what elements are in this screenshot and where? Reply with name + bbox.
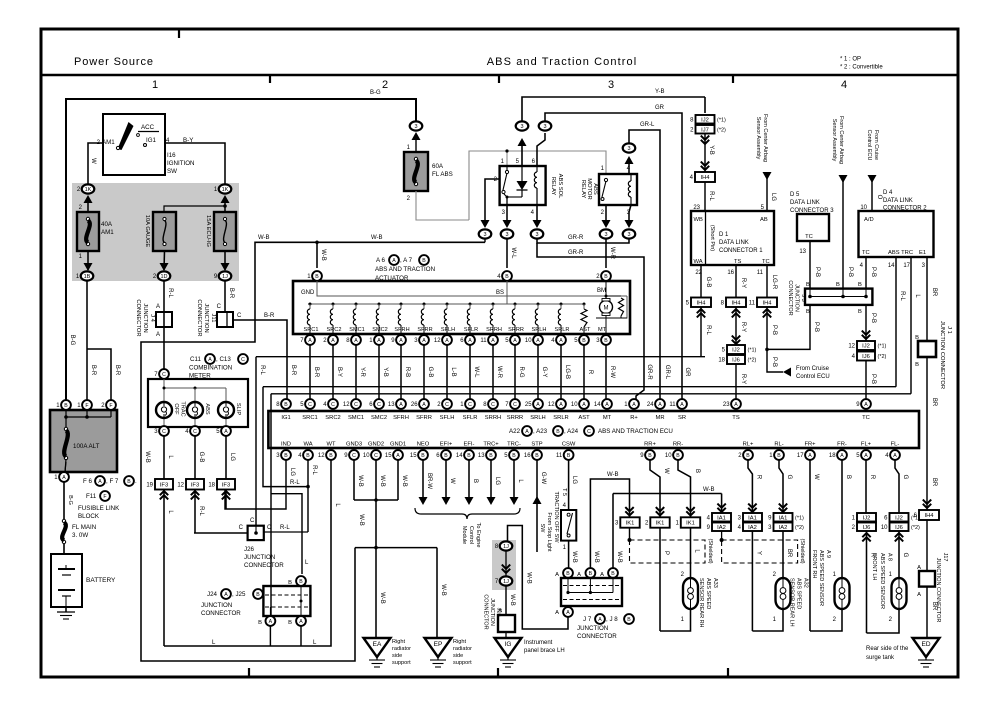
svg-text:A: A — [864, 402, 868, 408]
svg-text:IG1: IG1 — [281, 415, 290, 421]
MOTOR relay internals — [604, 178, 607, 181]
battery cell symbols — [58, 568, 75, 570]
svg-text:A: A — [605, 402, 609, 408]
svg-text:IK1: IK1 — [656, 521, 665, 527]
wire L to engine control module — [513, 460, 515, 497]
svg-text:A: A — [566, 610, 570, 616]
ECU pin RL+ — [743, 450, 753, 460]
wire W-B J7 riser — [590, 479, 629, 568]
svg-text:B: B — [472, 479, 478, 483]
svg-text:GR: GR — [684, 368, 690, 378]
ECU pin SR — [677, 399, 687, 409]
svg-text:TC: TC — [805, 234, 813, 240]
svg-text:C: C — [468, 402, 472, 408]
svg-text:CONNECTOR 1: CONNECTOR 1 — [719, 248, 763, 254]
ECU pin IND — [281, 450, 291, 460]
svg-text:.: . — [135, 478, 137, 485]
actuator solenoid SFRH — [400, 303, 403, 306]
svg-text:10: 10 — [525, 338, 532, 344]
ALT pin 1 B — [61, 400, 71, 410]
svg-text:SRC1: SRC1 — [302, 415, 317, 421]
actuator solenoid SFRR — [423, 303, 426, 306]
wire R RL+ — [748, 460, 752, 513]
svg-text:WA: WA — [694, 259, 703, 265]
svg-text:IJ2: IJ2 — [732, 348, 740, 354]
svg-text:P-B: P-B — [870, 267, 876, 277]
wire GR-L relay pin 4 — [628, 162, 630, 174]
svg-text:, A24: , A24 — [564, 428, 579, 435]
svg-text:3. 0W: 3. 0W — [72, 532, 88, 539]
connector 1K left — [82, 184, 95, 193]
connector 3 (B-G) — [410, 121, 423, 130]
svg-text:13: 13 — [388, 402, 395, 408]
svg-text:A: A — [808, 453, 812, 459]
fuse 40A AM1 — [77, 212, 99, 251]
svg-text:ED: ED — [921, 641, 930, 648]
wire W FR+ — [809, 460, 811, 631]
wire B-R J11 to ECU IG1 — [233, 320, 287, 399]
svg-text:CONNECTOR: CONNECTOR — [135, 299, 141, 336]
svg-text:SFLH: SFLH — [440, 415, 455, 421]
svg-text:G-B: G-B — [427, 367, 433, 378]
chevrons into IJ2 (TS) — [732, 336, 740, 344]
svg-text:FL ABS: FL ABS — [432, 171, 453, 178]
svg-text:STP: STP — [531, 442, 542, 448]
wire L meter to IF3 — [163, 436, 165, 479]
actuator pin SRC2 — [328, 335, 338, 345]
svg-text:LG: LG — [571, 476, 577, 484]
wire relay pin 3 — [629, 205, 631, 221]
svg-text:TRAC: TRAC — [180, 401, 186, 416]
svg-text:P-B: P-B — [870, 374, 876, 384]
actuator solenoid SMC1 — [355, 303, 358, 306]
wire W-B GND3 — [353, 460, 355, 500]
svg-text:18: 18 — [829, 453, 836, 459]
svg-text:IJ6: IJ6 — [895, 525, 903, 531]
svg-text:C: C — [162, 429, 166, 435]
svg-text:IJ2: IJ2 — [863, 515, 871, 521]
svg-text:100A ALT: 100A ALT — [73, 443, 100, 450]
wire R-L 12IF3 to J26 — [194, 490, 196, 534]
svg-text:16: 16 — [524, 453, 531, 459]
ECU pin SRLR — [556, 399, 566, 409]
junction connector J11 box — [217, 312, 233, 327]
svg-text:BR: BR — [931, 602, 937, 611]
svg-text:TRC-: TRC- — [507, 442, 521, 448]
svg-text:CONNECTOR: CONNECTOR — [244, 562, 284, 569]
ALT pin 1 A — [59, 472, 69, 482]
connector IJ2 (TS) — [727, 345, 745, 354]
svg-text:EFI+: EFI+ — [440, 442, 453, 448]
svg-text:A: A — [893, 453, 897, 459]
wire B RR- — [678, 460, 691, 517]
wire Y-B relay pin 5 — [521, 140, 523, 166]
svg-text:P: P — [663, 551, 669, 555]
svg-text:A: A — [598, 617, 602, 623]
wire P-B down — [766, 307, 768, 349]
wire G-B — [423, 345, 425, 399]
ECU pin CSW — [564, 450, 574, 460]
svg-text:W-B: W-B — [320, 249, 326, 261]
alternator 100A ALT box — [50, 410, 117, 472]
svg-text:R-L: R-L — [167, 288, 173, 298]
svg-text:A: A — [208, 357, 212, 363]
svg-text:Control ECU: Control ECU — [796, 374, 830, 380]
meter lamp TRACOFF — [163, 402, 165, 426]
svg-text:A: A — [156, 332, 160, 338]
svg-text:FL-: FL- — [891, 442, 900, 448]
wire from 60A fuse to relays (gray) — [416, 191, 469, 220]
actuator pin SRRR — [510, 335, 520, 345]
svg-text:SFRH: SFRH — [394, 327, 409, 333]
svg-text:AM1: AM1 — [101, 229, 114, 236]
svg-text:ABS SPEED SENSOR: ABS SPEED SENSOR — [818, 550, 824, 606]
wire W-B GND1 — [397, 460, 399, 500]
connector IJ6 (TS) — [727, 355, 745, 364]
wire W from AM1 — [88, 143, 103, 184]
wire R-W — [605, 345, 607, 399]
svg-text:SENSOR REAR LH: SENSOR REAR LH — [789, 578, 795, 627]
J7 pin B 2 — [586, 568, 596, 578]
wire W-B horizontal — [613, 493, 722, 495]
connector IJ2 (FL-) — [890, 513, 909, 522]
svg-text:BR-W: BR-W — [426, 473, 432, 489]
svg-text:ABS AND TRACTION ECU: ABS AND TRACTION ECU — [598, 428, 673, 435]
svg-text:IA2: IA2 — [748, 525, 757, 531]
wire R-L J26 to 12IF3 — [194, 532, 248, 534]
svg-text:W-B: W-B — [379, 592, 385, 604]
actuator solenoid SMC2 — [378, 303, 381, 306]
svg-text:BLOCK: BLOCK — [78, 513, 100, 520]
svg-text:D 1: D 1 — [719, 232, 729, 238]
svg-text:G-W: G-W — [540, 472, 546, 485]
svg-text:W-B: W-B — [358, 514, 364, 526]
actuator pin 4 B BS — [502, 271, 512, 281]
connector IA1 (G) — [774, 513, 793, 522]
svg-text:Control ECU: Control ECU — [866, 130, 872, 161]
wire G-Y — [537, 345, 539, 399]
svg-text:(Shielded): (Shielded) — [707, 538, 713, 563]
svg-text:A: A — [525, 429, 529, 435]
svg-text:12: 12 — [343, 402, 350, 408]
svg-text:1K: 1K — [222, 187, 229, 193]
svg-text:(*1): (*1) — [878, 344, 887, 350]
connector IF3 (R-L) — [186, 479, 204, 490]
svg-text:Right: Right — [453, 639, 467, 645]
svg-text:MT: MT — [603, 415, 612, 421]
svg-text:RL+: RL+ — [743, 442, 754, 448]
wire W-L — [469, 345, 471, 399]
svg-text:SW: SW — [167, 168, 177, 175]
arrow From Cruise Control ECU — [783, 368, 791, 377]
svg-text:W-R: W-R — [496, 366, 502, 379]
svg-text:SRRR: SRRR — [508, 327, 524, 333]
svg-text:B: B — [806, 309, 810, 315]
wire R-L horizontal (IH4-5 to J26) — [256, 356, 705, 358]
svg-text:B-R: B-R — [228, 288, 234, 299]
actuator pin SRRH — [488, 335, 498, 345]
svg-text:11: 11 — [749, 300, 756, 306]
svg-text:3: 3 — [604, 232, 607, 238]
ECU pin MT — [602, 399, 612, 409]
svg-text:CSW: CSW — [562, 442, 576, 448]
junction P-B — [765, 348, 769, 352]
gray 1J connector background — [492, 540, 516, 590]
svg-text:TC: TC — [862, 415, 870, 421]
svg-text:(*1): (*1) — [795, 515, 804, 521]
svg-text:R+: R+ — [630, 415, 638, 421]
svg-text:14: 14 — [594, 402, 601, 408]
wire R-Y — [735, 265, 737, 297]
svg-text:R-L: R-L — [259, 365, 265, 375]
svg-text:WA: WA — [303, 442, 312, 448]
wire BR to ED — [926, 587, 928, 638]
ECU pin SRLH — [533, 399, 543, 409]
connector IJ2 (TC) — [857, 341, 875, 350]
svg-text:11: 11 — [757, 270, 764, 276]
connector IA2 (G) — [774, 523, 793, 532]
svg-text:C: C — [445, 402, 449, 408]
svg-text:B-G: B-G — [69, 335, 75, 346]
wire LG to engine control module — [490, 460, 492, 497]
svg-text:C: C — [217, 304, 222, 310]
svg-text:R-L: R-L — [899, 291, 905, 301]
svg-text:IG: IG — [505, 641, 512, 648]
svg-text:JUNCTION: JUNCTION — [244, 554, 275, 561]
wire W-B to EP — [355, 547, 437, 549]
chevrons into IK1 3 — [625, 507, 633, 515]
svg-text:(*2): (*2) — [717, 127, 726, 133]
svg-text:CONNECTOR: CONNECTOR — [483, 594, 489, 629]
ALT pin 2 F — [106, 400, 116, 410]
svg-text:LG-B: LG-B — [564, 365, 570, 379]
svg-text:Rear side of the: Rear side of the — [866, 646, 909, 652]
svg-text:3: 3 — [483, 232, 486, 238]
svg-text:P-B: P-B — [771, 357, 777, 367]
connector IH4 (R-Y) — [726, 298, 746, 308]
chevrons into IK1 2 — [656, 507, 664, 515]
svg-text:J 1: J 1 — [946, 326, 952, 334]
actuator pin SMC2 — [374, 335, 384, 345]
svg-text:25: 25 — [525, 402, 532, 408]
wire G RL- — [779, 460, 783, 513]
shield box A33 — [630, 540, 706, 563]
wire R-L IH4-5 to J26 top — [255, 357, 257, 526]
svg-text:3: 3 — [535, 232, 538, 238]
svg-text:G: G — [902, 553, 908, 558]
svg-text:(*2): (*2) — [911, 525, 920, 531]
wire LG 18IF3 down — [225, 490, 227, 510]
wire W-L to actuator BS — [506, 239, 508, 268]
svg-text:1J: 1J — [222, 274, 228, 280]
connector IA2 (R) — [743, 523, 762, 532]
svg-text:C: C — [241, 357, 245, 363]
svg-text:1J: 1J — [503, 579, 509, 585]
svg-text:AST: AST — [580, 327, 591, 333]
svg-text:ABS: ABS — [204, 403, 210, 414]
svg-text:G-B: G-B — [705, 277, 711, 288]
svg-text:W-B: W-B — [144, 451, 150, 463]
wire L D4-17 to J24 — [270, 394, 272, 617]
svg-text:LG: LG — [494, 477, 500, 485]
svg-text:R-L: R-L — [311, 465, 317, 475]
wire P-B J3 to IJ2 TC — [865, 305, 867, 341]
svg-text:13: 13 — [799, 249, 806, 255]
svg-text:RELAY: RELAY — [550, 177, 556, 196]
chevrons into IA pair 2 — [748, 504, 756, 512]
ignition switch I16 box — [103, 114, 165, 175]
svg-text:AM1: AM1 — [102, 139, 115, 146]
wire B-R — [309, 345, 311, 399]
svg-text:A: A — [632, 402, 636, 408]
svg-text:P-B: P-B — [870, 313, 876, 323]
connector 3 (GR-R) — [531, 229, 544, 238]
svg-text:(*1): (*1) — [748, 348, 757, 354]
svg-text:W-B: W-B — [571, 551, 577, 563]
connector 1K right — [219, 184, 232, 193]
connector IH4 (Y-B/R-L) — [695, 172, 715, 182]
ECU pin GND3 — [349, 450, 359, 460]
connector IF3 (L) — [155, 479, 173, 490]
svg-text:A: A — [377, 338, 381, 344]
svg-text:W-B: W-B — [593, 551, 599, 563]
svg-text:F: F — [85, 403, 88, 409]
wire G-W STP — [536, 460, 538, 552]
meter lamp SLIP — [225, 402, 227, 426]
chevrons below IH4 G-B — [697, 309, 705, 317]
svg-text:BM: BM — [597, 288, 606, 294]
connector IH4 (G-B) — [691, 298, 711, 308]
svg-text:LG: LG — [229, 453, 235, 461]
actuator pin SFRH — [396, 335, 406, 345]
svg-text:TRACTION OFF SW: TRACTION OFF SW — [553, 491, 559, 543]
wire GR relay pin 6 — [537, 133, 545, 166]
svg-text:SRRH: SRRH — [486, 327, 502, 333]
svg-text:P-B: P-B — [813, 322, 819, 332]
svg-text:P-B: P-B — [814, 267, 820, 277]
ECU pin EFI+ — [441, 450, 451, 460]
svg-text:From Center Airbag: From Center Airbag — [838, 116, 844, 164]
svg-text:B: B — [256, 592, 260, 598]
svg-text:B-G: B-G — [67, 495, 73, 505]
svg-text:26: 26 — [411, 402, 418, 408]
svg-text:SR: SR — [678, 415, 686, 421]
svg-text:A: A — [582, 402, 586, 408]
connector IJ6 (TC) — [857, 352, 875, 361]
arrow from center airbag (LG) — [763, 172, 772, 180]
relay ABS SOL RELAY box — [500, 166, 546, 205]
svg-text:R: R — [587, 370, 593, 375]
svg-text:1B: 1B — [84, 274, 91, 280]
svg-text:IA2: IA2 — [717, 525, 726, 531]
svg-text:F: F — [103, 494, 106, 500]
wire R-L WA to J26 — [307, 460, 309, 532]
junction W-B — [315, 241, 319, 245]
wire R-L 1D to meter — [163, 281, 165, 369]
J7 pin B — [563, 568, 573, 578]
svg-text:(*2): (*2) — [878, 354, 887, 360]
connector 3 (GR-R link) — [623, 229, 636, 238]
svg-text:18: 18 — [208, 482, 215, 488]
svg-text:BR: BR — [931, 398, 937, 407]
ECU pin SFLR — [465, 399, 475, 409]
tick bottom border — [727, 668, 729, 677]
wire BR-W to engine control module — [422, 460, 424, 497]
wire R-L horizontal (D4-14) — [263, 386, 896, 388]
svg-text:Power Source: Power Source — [74, 56, 154, 68]
svg-text:ABS SPEED SENSOR: ABS SPEED SENSOR — [879, 553, 885, 609]
svg-text:B: B — [64, 403, 68, 409]
svg-text:FL MAIN: FL MAIN — [72, 524, 96, 531]
connector 3 (Y-B) — [516, 121, 529, 130]
svg-text:D 5: D 5 — [790, 192, 800, 198]
svg-text:A22: A22 — [509, 428, 521, 435]
svg-text:panel brace LH: panel brace LH — [524, 648, 565, 654]
svg-text:RR-: RR- — [673, 442, 683, 448]
svg-text:From Stop Light: From Stop Light — [546, 512, 552, 552]
svg-text:W-B: W-B — [509, 594, 515, 606]
ECU pin R+ — [629, 399, 639, 409]
svg-text:J26: J26 — [244, 546, 255, 553]
svg-text:C: C — [377, 402, 381, 408]
svg-text:B: B — [845, 475, 851, 479]
wire R to sensor A8 — [866, 531, 868, 633]
svg-text:1: 1 — [152, 79, 158, 91]
wire L to sensor A33 — [690, 528, 692, 578]
svg-text:B: B — [604, 274, 608, 280]
svg-text:A: A — [62, 475, 66, 481]
svg-text:10A GAUGE: 10A GAUGE — [144, 215, 150, 248]
svg-text:SMC2: SMC2 — [372, 327, 388, 333]
svg-text:W-B: W-B — [379, 475, 385, 487]
wire R-Y to ECU TS — [735, 364, 737, 399]
svg-text:B: B — [258, 620, 262, 626]
fuse 10A GAUGE — [153, 212, 176, 251]
svg-text:A: A — [536, 338, 540, 344]
ECU pin MR — [655, 399, 665, 409]
svg-text:JUNCTION: JUNCTION — [577, 625, 608, 632]
svg-text:B: B — [127, 479, 131, 485]
svg-text:W: W — [663, 468, 669, 474]
actuator GND bus — [317, 281, 627, 296]
junction connector J26 box — [248, 526, 264, 540]
svg-text:IH4: IH4 — [696, 300, 706, 306]
svg-text:10: 10 — [363, 453, 370, 459]
ECU pin TC — [861, 399, 871, 409]
svg-text:LG-R: LG-R — [771, 275, 777, 290]
wire BR to J17 — [926, 520, 928, 571]
chevrons below IH4 R-Y — [732, 309, 740, 317]
svg-text:A: A — [331, 338, 335, 344]
arrow into 1K left — [84, 195, 93, 203]
connector 3 (GR-L) — [623, 143, 636, 152]
wire Y-B to IJ2 — [522, 97, 705, 121]
svg-text:GR: GR — [655, 105, 665, 111]
wire W-B to EA — [375, 548, 377, 638]
relay ABS MOTOR RELAY box — [599, 174, 637, 205]
svg-text:A: A — [468, 338, 472, 344]
svg-text:SFRR: SFRR — [417, 327, 432, 333]
tick top border — [178, 29, 180, 38]
svg-text:From Cruise: From Cruise — [873, 130, 879, 160]
wire GR to ECU SR — [545, 113, 682, 399]
svg-text:I16: I16 — [167, 152, 176, 159]
wire G FL- — [895, 460, 899, 513]
svg-text:FUSIBLE LINK: FUSIBLE LINK — [78, 505, 120, 512]
svg-text:DATA LINK: DATA LINK — [883, 198, 913, 204]
svg-text:A: A — [224, 429, 228, 435]
svg-text:B: B — [489, 453, 493, 459]
